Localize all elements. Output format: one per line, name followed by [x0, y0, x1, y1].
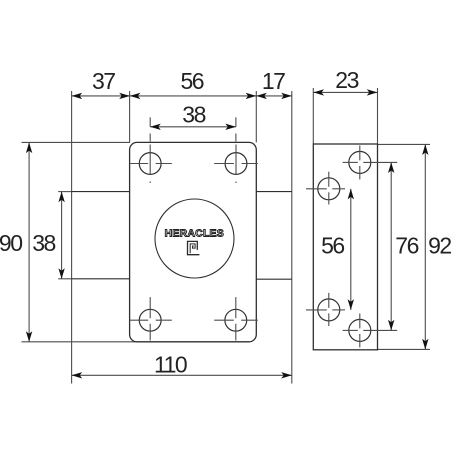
- svg-text:90: 90: [0, 230, 22, 256]
- left barrel top edge: [72, 191, 130, 193]
- arrow 56 right up: [348, 189, 354, 200]
- svg-text:37: 37: [92, 68, 115, 94]
- wire: extension line x=71.5 (left end of 37 / 110 dims): [71, 91, 73, 384]
- right barrel bottom edge: [256, 278, 292, 280]
- crosshair of top-left hole: [130, 163, 149, 165]
- svg-text:110: 110: [154, 352, 187, 378]
- svg-text:56: 56: [321, 233, 344, 259]
- wire: 38 left dimension line x=62: [61, 192, 63, 279]
- wire: 38-left extension overshoot bottom: [58, 278, 71, 280]
- arrow 17 right: [281, 93, 292, 99]
- wire: plate right extension above y=88: [377, 88, 379, 144]
- wire: extension line x=291.8 (right of 17 / 110 dims): [291, 91, 293, 384]
- svg-text:92: 92: [428, 233, 451, 259]
- arrow 110 left: [72, 372, 83, 378]
- arrow 37 left: [72, 93, 83, 99]
- arrow 76 up: [388, 162, 394, 173]
- svg-text:38: 38: [32, 230, 55, 256]
- arrow 38 left up: [58, 192, 64, 203]
- arrow 23 left: [313, 89, 324, 95]
- crosshair of plate right-bottom hole: [343, 329, 358, 331]
- hole top-left of body: [139, 153, 161, 175]
- wire: 92 top extension y=144.3: [378, 143, 431, 145]
- left barrel bottom edge: [72, 278, 130, 280]
- wire: left extension line top y=142.4: [22, 141, 131, 143]
- svg-text:17: 17: [262, 68, 285, 94]
- wire: plate left extension above y=88: [312, 88, 314, 144]
- arrow 23 right: [367, 89, 378, 95]
- plate hole left-top: [318, 178, 340, 200]
- arrow 90 down: [26, 331, 32, 342]
- crosshair of bottom-right hole: [214, 319, 234, 321]
- svg-text:76: 76: [395, 233, 418, 259]
- centre medallion circle: [155, 199, 234, 278]
- arrow 56 right down: [348, 299, 354, 310]
- right barrel top edge: [256, 191, 292, 193]
- crosshair of bottom-left hole: [130, 319, 149, 321]
- side plate rectangle: [313, 144, 377, 350]
- arrow 92 down: [422, 339, 428, 350]
- svg-text:23: 23: [335, 67, 358, 93]
- wire: 90 dimension line x=29: [28, 143, 30, 342]
- plate hole right-top: [349, 151, 371, 173]
- svg-text:56: 56: [181, 68, 204, 94]
- wire: top dimension line y=95.5: [72, 95, 292, 97]
- arrow 56 right: [246, 93, 257, 99]
- svg-text:HERACLES: HERACLES: [165, 228, 224, 240]
- lock body front view rounded rectangle: [130, 142, 257, 341]
- wire: short dash extension under 38 dim right: [235, 134, 237, 142]
- HERACLES square-spiral logo: [188, 241, 200, 254]
- wire: 38 dimension line y=126.9: [150, 126, 236, 128]
- wire: 110 dimension line y=376: [72, 374, 292, 376]
- arrow 17 left: [256, 93, 267, 99]
- wire: 38-left extension overshoot top: [58, 191, 71, 193]
- wire: 92 dimension line x=425.1: [424, 144, 426, 349]
- plate hole right-bottom: [349, 319, 371, 341]
- arrow 92 up: [422, 144, 428, 155]
- wire: extension overshoot above 38 dim left: [149, 117, 151, 127]
- wire: extension line x=256.3 above body: [255, 91, 257, 142]
- wire: extension line x=129.6 above body: [129, 91, 131, 142]
- arrow 90 up: [26, 143, 32, 154]
- arrow 38 top right: [225, 124, 236, 130]
- crosshair of plate right-top hole: [343, 161, 358, 163]
- wire: 92 bottom extension y=349.3: [378, 348, 431, 350]
- wire: extension overshoot above 38 dim right: [235, 117, 237, 127]
- arrow 110 right: [281, 372, 292, 378]
- hole bottom-left of body: [139, 309, 161, 331]
- arrow 56 left: [130, 93, 141, 99]
- crosshair of plate left-bottom hole: [306, 309, 327, 311]
- wire: left extension line bottom y=341.8: [22, 341, 138, 343]
- crosshair of plate left-top hole: [306, 188, 327, 190]
- wire: short dash extension under 38 dim left: [149, 134, 151, 142]
- hole bottom-right of body: [225, 309, 247, 331]
- arrowheads: [26, 89, 429, 378]
- wire: 56 right dimension line x=350.8: [350, 189, 352, 310]
- arrow 76 down: [388, 320, 394, 331]
- wire: 76 dimension line x=390.8: [390, 162, 392, 330]
- wire: 23 dimension line y=92.3: [313, 91, 377, 93]
- crosshair of top-right hole: [214, 163, 234, 165]
- arrow 38 left down: [58, 268, 64, 279]
- hole top-right of body: [225, 153, 247, 175]
- svg-text:38: 38: [182, 102, 205, 128]
- arrow 38 top left: [150, 124, 161, 130]
- arrow 37 right: [119, 93, 130, 99]
- plate hole left-bottom: [318, 299, 340, 321]
